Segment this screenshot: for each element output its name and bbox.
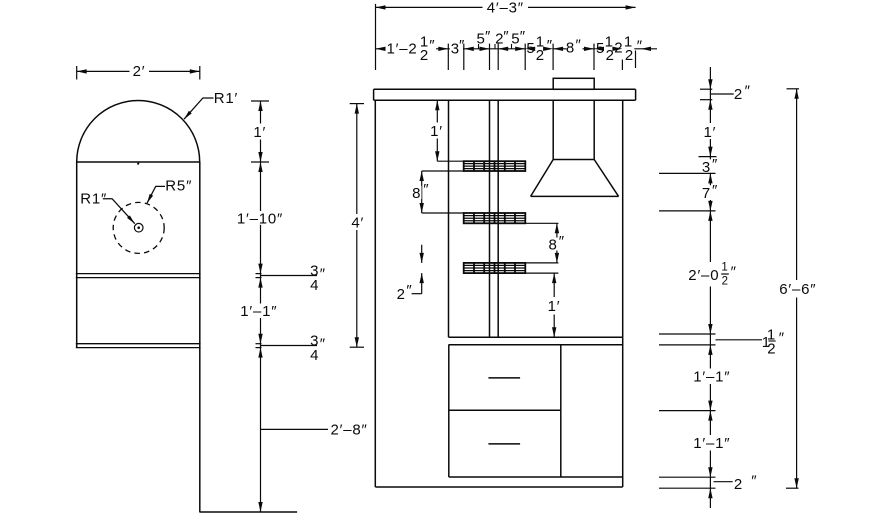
- svg-text:R1′: R1′: [214, 90, 238, 107]
- svg-text:″: ″: [547, 37, 553, 54]
- svg-text:″: ″: [712, 182, 718, 199]
- svg-text:1′–1″: 1′–1″: [693, 369, 730, 386]
- svg-text:″: ″: [320, 335, 326, 352]
- svg-text:1′: 1′: [253, 124, 266, 141]
- svg-text:7: 7: [702, 185, 711, 202]
- svg-text:″: ″: [320, 265, 326, 282]
- svg-text:2′: 2′: [133, 63, 146, 80]
- svg-text:1′–2: 1′–2: [387, 40, 418, 57]
- svg-text:R5″: R5″: [165, 177, 192, 194]
- svg-text:2′–0: 2′–0: [688, 267, 719, 284]
- svg-text:″: ″: [423, 181, 429, 198]
- svg-text:2: 2: [420, 47, 429, 64]
- svg-text:″: ″: [406, 282, 412, 299]
- svg-text:R1″: R1″: [80, 191, 107, 208]
- svg-text:″: ″: [429, 37, 435, 54]
- svg-text:1′–1″: 1′–1″: [240, 303, 277, 320]
- svg-text:8: 8: [548, 237, 557, 254]
- svg-text:2: 2: [625, 47, 634, 64]
- svg-text:2′–8″: 2′–8″: [331, 422, 368, 439]
- svg-text:″: ″: [459, 37, 465, 54]
- svg-text:2: 2: [767, 341, 776, 358]
- svg-text:4: 4: [310, 347, 319, 364]
- svg-text:″: ″: [637, 38, 643, 55]
- svg-text:2: 2: [722, 276, 729, 288]
- svg-text:3: 3: [702, 159, 711, 176]
- svg-text:2: 2: [734, 86, 743, 103]
- svg-text:8: 8: [566, 40, 575, 57]
- svg-text:″: ″: [485, 28, 491, 45]
- svg-text:1: 1: [721, 262, 728, 274]
- svg-text:″: ″: [576, 37, 582, 54]
- svg-text:4′–3″: 4′–3″: [487, 0, 524, 17]
- svg-text:″: ″: [559, 233, 565, 250]
- svg-text:″: ″: [503, 28, 509, 45]
- svg-text:8: 8: [412, 185, 421, 202]
- svg-text:″: ″: [520, 28, 526, 45]
- svg-text:2: 2: [734, 476, 743, 493]
- svg-text:″: ″: [745, 83, 751, 100]
- svg-text:1′: 1′: [548, 298, 561, 315]
- svg-text:2: 2: [397, 286, 406, 303]
- svg-text:1′: 1′: [430, 123, 443, 140]
- svg-text:″: ″: [779, 330, 785, 347]
- svg-text:4′: 4′: [351, 215, 364, 232]
- svg-text:6′–6″: 6′–6″: [779, 281, 816, 298]
- svg-text:″: ″: [731, 264, 737, 281]
- svg-text:4: 4: [310, 277, 319, 294]
- svg-text:1′–10″: 1′–10″: [237, 210, 283, 227]
- svg-text:″: ″: [712, 156, 718, 173]
- svg-text:1′: 1′: [704, 124, 717, 141]
- svg-text:1′–1″: 1′–1″: [693, 435, 730, 452]
- svg-text:″: ″: [751, 472, 757, 489]
